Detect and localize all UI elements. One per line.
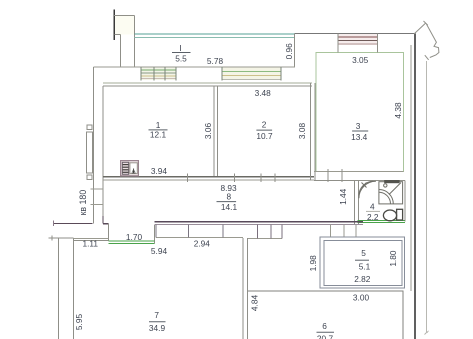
svg-text:3.05: 3.05 [352, 55, 369, 65]
svg-text:3.94: 3.94 [151, 166, 168, 176]
svg-text:8: 8 [226, 191, 231, 201]
svg-text:5.5: 5.5 [175, 54, 187, 64]
svg-text:5.1: 5.1 [359, 262, 371, 272]
svg-text:6: 6 [322, 321, 327, 331]
svg-text:4: 4 [370, 202, 375, 212]
svg-text:2: 2 [262, 120, 267, 130]
svg-text:5.94: 5.94 [151, 246, 168, 256]
svg-text:7: 7 [154, 310, 159, 320]
svg-text:1.80: 1.80 [388, 250, 398, 267]
svg-text:3.00: 3.00 [353, 292, 370, 302]
svg-text:2.2: 2.2 [367, 212, 379, 222]
svg-text:12.1: 12.1 [150, 130, 167, 140]
svg-text:кв 180: кв 180 [78, 190, 88, 216]
svg-text:10.7: 10.7 [256, 131, 273, 141]
svg-text:5: 5 [361, 248, 366, 258]
svg-text:1.11: 1.11 [83, 239, 99, 249]
svg-text:1: 1 [156, 120, 161, 130]
svg-text:2.94: 2.94 [194, 239, 211, 249]
svg-text:3.48: 3.48 [255, 88, 272, 98]
svg-text:34.9: 34.9 [149, 323, 166, 333]
svg-text:3: 3 [356, 121, 361, 131]
svg-text:1.70: 1.70 [126, 232, 143, 242]
svg-text:3.08: 3.08 [297, 123, 307, 140]
svg-text:14.1: 14.1 [221, 202, 238, 212]
svg-text:13.4: 13.4 [351, 132, 368, 142]
svg-text:4.38: 4.38 [393, 102, 403, 119]
svg-text:2.82: 2.82 [354, 274, 371, 284]
svg-text:1.44: 1.44 [338, 188, 348, 205]
svg-text:1.98: 1.98 [308, 255, 318, 272]
svg-text:I: I [179, 43, 181, 53]
svg-text:3.06: 3.06 [203, 123, 213, 140]
svg-text:5.95: 5.95 [74, 314, 84, 331]
svg-text:5.78: 5.78 [207, 56, 224, 66]
svg-text:4.84: 4.84 [249, 295, 259, 312]
svg-text:20.7: 20.7 [317, 333, 334, 339]
svg-text:0.96: 0.96 [284, 43, 294, 60]
